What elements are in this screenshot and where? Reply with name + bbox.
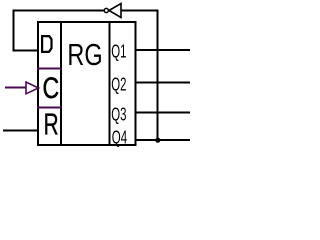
wire input R: [3, 130, 37, 132]
wire output Q3: [136, 112, 190, 114]
svg-text:Q1: Q1: [111, 42, 126, 62]
svg-text:R: R: [44, 107, 59, 142]
wire output Q1: [136, 49, 190, 51]
wire output Q2: [136, 82, 190, 84]
clock edge triangle at C: [26, 82, 39, 94]
inverter U2 bubble: [104, 8, 108, 12]
inverter U2 triangle: [109, 4, 121, 18]
output column separator: [109, 21, 111, 146]
junction dot on Q4 feedback: [155, 138, 160, 143]
svg-text:C: C: [43, 72, 60, 105]
svg-text:Q4: Q4: [112, 128, 127, 148]
wire inverter input from right vertical: [122, 10, 159, 12]
wire right vertical feedback from Q4: [157, 10, 159, 141]
C/R cell separator: [37, 107, 62, 109]
svg-text:Q2: Q2: [111, 75, 126, 95]
wire feedback output of inverter: left and down to D input: [14, 11, 105, 51]
left column separator: [60, 21, 62, 146]
register U1 body: [38, 22, 136, 145]
wire input C (clock): [5, 87, 26, 89]
svg-text:Q3: Q3: [111, 105, 126, 125]
svg-text:RG: RG: [67, 37, 102, 72]
pin D: [42, 36, 51, 52]
D/C cell separator: [37, 68, 62, 70]
wire output Q4: [136, 139, 190, 141]
